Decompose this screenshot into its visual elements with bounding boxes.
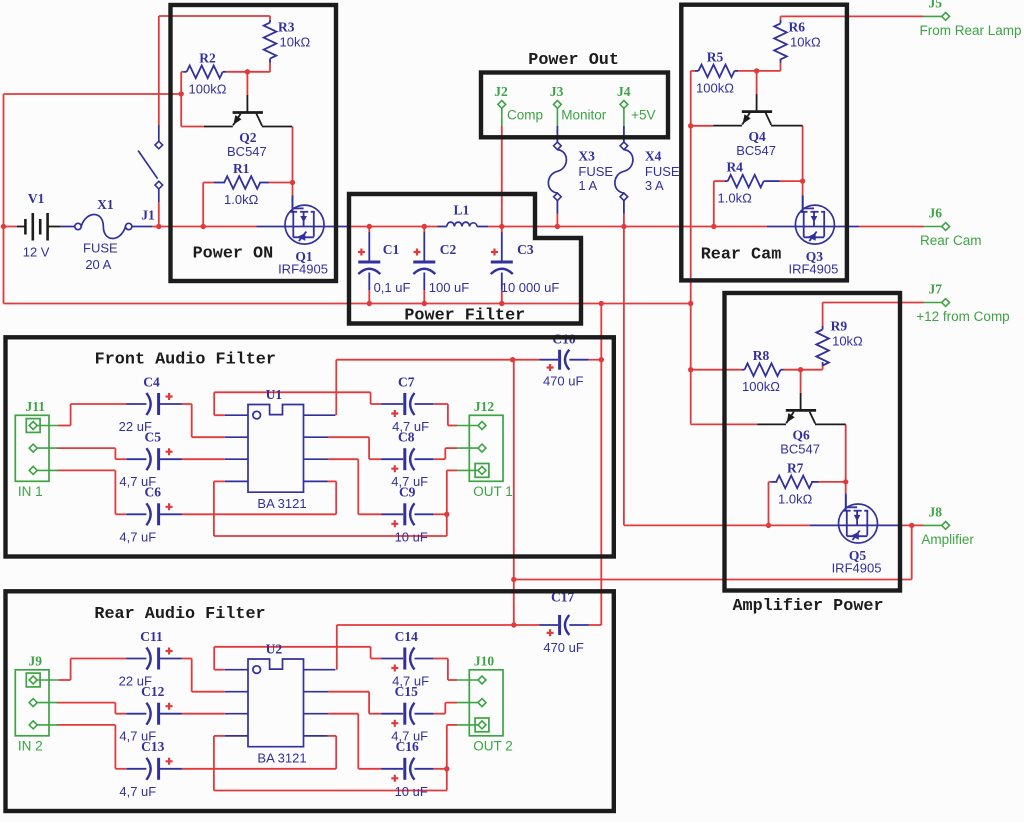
wire: R2 left vertical xyxy=(180,72,182,127)
svg-text:BC547: BC547 xyxy=(227,144,267,159)
svg-text:1 A: 1 A xyxy=(578,178,597,193)
wire: U pin4 left drop xyxy=(214,735,225,737)
svg-text:C13: C13 xyxy=(141,739,164,754)
resistor R1 xyxy=(224,176,260,189)
box: Power ON xyxy=(171,5,337,281)
svg-text:X3: X3 xyxy=(578,148,595,163)
wire: main 12V rail through Power ON xyxy=(186,226,257,228)
connector J4 xyxy=(620,101,628,109)
svg-text:J3: J3 xyxy=(550,84,564,99)
svg-text:BA 3121: BA 3121 xyxy=(257,751,306,766)
box: Rear Audio Filter xyxy=(6,591,614,811)
resistor R6 xyxy=(774,23,787,59)
svg-text:Q4: Q4 xyxy=(748,129,766,144)
svg-text:OUT 2: OUT 2 xyxy=(473,738,513,753)
svg-text:X4: X4 xyxy=(645,148,662,163)
wire: bottom ground rail xyxy=(4,303,691,305)
svg-text:BA 3121: BA 3121 xyxy=(257,496,306,511)
svg-text:10 uF: 10 uF xyxy=(395,529,428,544)
svg-text:10 000 uF: 10 000 uF xyxy=(501,280,560,295)
svg-text:FUSE: FUSE xyxy=(83,241,118,256)
svg-text:J2: J2 xyxy=(494,84,508,99)
capacitor C11 xyxy=(126,658,146,660)
wire: Q4 emitter line to vertical xyxy=(691,125,714,127)
wire: R6 top to J5 xyxy=(780,16,782,20)
box: Amplifier Power xyxy=(725,293,901,591)
capacitor C12 xyxy=(126,713,146,715)
svg-text:R2: R2 xyxy=(199,50,216,65)
svg-text:FUSE: FUSE xyxy=(578,164,613,179)
svg-text:Amplifier: Amplifier xyxy=(921,532,974,547)
wire: R5 leads xyxy=(691,70,695,72)
wire: C10 row to front filter xyxy=(336,359,512,361)
MOSFET Q1 xyxy=(285,205,324,244)
capacitor C4 xyxy=(126,403,146,405)
wire: U pin4 right to C13 row xyxy=(328,735,337,737)
wire: R3 top stub xyxy=(269,20,271,23)
wire: L1 to Rear Cam Q3 xyxy=(488,226,767,228)
svg-text:J8: J8 xyxy=(929,505,943,520)
wire: C10 row xyxy=(513,359,540,361)
wire: J pin2 to C12 xyxy=(57,702,116,704)
svg-text:L1: L1 xyxy=(454,203,470,218)
svg-text:C15: C15 xyxy=(395,684,418,699)
wire: filter cap rail drop (x=601.3) xyxy=(600,304,602,626)
svg-text:100 uF: 100 uF xyxy=(429,280,470,295)
capacitor C5 xyxy=(126,458,146,460)
svg-text:4,7 uF: 4,7 uF xyxy=(119,529,156,544)
transistor Q2 xyxy=(246,72,248,95)
svg-text:C12: C12 xyxy=(141,684,164,699)
svg-text:J7: J7 xyxy=(929,282,943,297)
transistor Q4 xyxy=(756,71,758,94)
wire: Q5 switched output to J8 xyxy=(769,524,811,526)
svg-text:J9: J9 xyxy=(28,653,42,668)
wire: bottom link row xyxy=(214,535,447,537)
connector J6 xyxy=(924,226,942,228)
wire: U pin3 right to C16 xyxy=(328,713,358,715)
wire: R8 left lead from vertical xyxy=(691,369,742,371)
battery V1 xyxy=(17,226,25,228)
wire: battery positive lead xyxy=(4,226,18,228)
svg-text:BC547: BC547 xyxy=(780,442,820,457)
resistor R5 xyxy=(699,65,735,78)
svg-text:IRF4905: IRF4905 xyxy=(832,561,882,576)
wire: R7 leads xyxy=(769,481,772,483)
wire: C13 right lead xyxy=(182,768,336,770)
svg-text:IN 1: IN 1 xyxy=(18,484,43,499)
wire: R4 left vertical to rail xyxy=(713,181,715,226)
svg-text:10 uF: 10 uF xyxy=(395,784,428,799)
svg-text:J12: J12 xyxy=(474,399,495,414)
box: Rear Cam xyxy=(681,5,847,281)
wire: C4 to U pin2 left xyxy=(182,403,192,405)
connector J8 xyxy=(924,524,942,526)
svg-text:10kΩ: 10kΩ xyxy=(832,334,863,349)
MOSFET Q3 xyxy=(795,205,834,244)
wire: J8 feedback loop down and left xyxy=(911,525,913,579)
resistor R9 xyxy=(816,330,829,366)
svg-text:X1: X1 xyxy=(97,197,114,212)
svg-text:10kΩ: 10kΩ xyxy=(790,35,821,50)
wire: U pin4 right to C6 row xyxy=(328,480,337,482)
svg-text:12 V: 12 V xyxy=(23,245,50,260)
wire: C6 right lead xyxy=(182,513,336,515)
wire: Q4 collector down to R4/Q3 gate xyxy=(802,126,804,196)
svg-text:3 A: 3 A xyxy=(645,178,664,193)
wire: X3 to rail xyxy=(556,201,558,214)
resistor R8 xyxy=(745,363,781,376)
capacitor C13 xyxy=(126,768,146,770)
svg-text:J11: J11 xyxy=(25,399,45,414)
svg-text:100kΩ: 100kΩ xyxy=(742,379,780,394)
wire: U pin1 left Z-route to C7 xyxy=(214,414,225,416)
wire: R5/R6 junction link xyxy=(757,70,781,72)
wire: J3 to fuse X3 xyxy=(556,108,558,126)
wire: C15 to J pin2 xyxy=(434,713,445,715)
svg-text:C16: C16 xyxy=(396,739,419,754)
svg-text:R5: R5 xyxy=(707,49,724,64)
svg-text:R3: R3 xyxy=(278,20,295,35)
capacitor C2 xyxy=(423,227,425,233)
svg-text:100kΩ: 100kΩ xyxy=(189,81,227,96)
wire: U pin1 left Z-route to C14 xyxy=(214,669,225,671)
wire: C17 row xyxy=(337,624,514,626)
wire: battery left rail vertical xyxy=(3,94,5,304)
svg-text:10kΩ: 10kΩ xyxy=(280,35,311,50)
wire: C12 to U pin3 left xyxy=(182,713,225,715)
wire: C11 to U pin2 left xyxy=(182,658,192,660)
wire: R2 leads blue stubs xyxy=(183,71,187,73)
svg-text:J10: J10 xyxy=(474,653,495,668)
svg-text:470 uF: 470 uF xyxy=(543,374,584,389)
wire: J9 pin1 to C11 xyxy=(58,679,71,681)
switch S1 xyxy=(158,125,160,141)
inductor L1 xyxy=(438,226,447,228)
capacitor C1 xyxy=(368,227,370,233)
svg-text:1.0kΩ: 1.0kΩ xyxy=(224,192,259,207)
junction dots xyxy=(1,224,6,229)
wire: J pin3 to C6 xyxy=(57,469,116,471)
wire: U pin2 right to C15 xyxy=(328,691,369,693)
wire: switch lower stub to J1 xyxy=(158,202,160,227)
wire: R5 left vertical (to ground rail and amp) xyxy=(690,71,692,423)
wire: emitter line Q6 to left vertical xyxy=(690,423,692,424)
wire: J4 to fuse X4 xyxy=(623,108,625,126)
wire: C8 to J pin2 xyxy=(434,458,445,460)
svg-text:J4: J4 xyxy=(617,84,631,99)
wire: C5 to U pin3 left xyxy=(182,458,225,460)
svg-text:1.0kΩ: 1.0kΩ xyxy=(718,191,753,206)
svg-text:Monitor: Monitor xyxy=(561,108,607,123)
resistor R3 xyxy=(264,23,277,59)
svg-text:Comp: Comp xyxy=(507,108,543,123)
wire: Q3 to J6 xyxy=(859,226,924,228)
wire: J2 to +12 rail (Comp) xyxy=(501,108,503,126)
wire: fuse X1 to J1 node xyxy=(152,226,186,228)
wire: Q2 collector down to R1/Q1 gate xyxy=(292,127,294,196)
svg-text:4,7 uF: 4,7 uF xyxy=(119,784,156,799)
svg-text:R6: R6 xyxy=(789,20,806,35)
connector J5 xyxy=(924,15,942,17)
wire: R3 bottom to base junction xyxy=(269,63,271,72)
wire: U pin4 left drop xyxy=(214,480,225,482)
svg-text:R4: R4 xyxy=(726,160,743,175)
svg-text:J1: J1 xyxy=(141,208,155,223)
resistor R2 xyxy=(187,66,223,79)
wire: R9 top to J7 xyxy=(822,303,824,327)
svg-text:Amplifier Power: Amplifier Power xyxy=(732,597,883,616)
capacitor C10 xyxy=(540,359,559,361)
wire: J pin3 to C13 xyxy=(57,724,116,726)
svg-text:R9: R9 xyxy=(831,319,848,334)
svg-text:Rear Cam: Rear Cam xyxy=(920,233,982,248)
capacitor C6 xyxy=(126,513,146,515)
wire: U pin3 right to C9 xyxy=(328,458,358,460)
capacitor C14 xyxy=(381,658,403,660)
wire: bottom link row xyxy=(214,790,447,792)
capacitor C15 xyxy=(381,713,403,715)
wire: Q2 emitter to R2-left xyxy=(181,126,204,128)
svg-text:FUSE: FUSE xyxy=(645,164,680,179)
svg-text:C8: C8 xyxy=(398,430,415,445)
svg-text:C3: C3 xyxy=(517,242,534,257)
svg-text:IRF4905: IRF4905 xyxy=(278,262,328,277)
svg-text:BC547: BC547 xyxy=(736,143,776,158)
wire: X4 rail to amplifier switch source (x=624 vertical) xyxy=(623,227,625,526)
svg-text:R7: R7 xyxy=(787,460,804,475)
svg-text:C11: C11 xyxy=(140,629,163,644)
svg-text:J6: J6 xyxy=(929,206,943,221)
svg-text:V1: V1 xyxy=(28,191,45,206)
svg-text:U2: U2 xyxy=(266,642,283,657)
connector J11 xyxy=(15,415,49,481)
wire: fuse X1 blue lead to J1 xyxy=(132,226,152,228)
svg-text:C14: C14 xyxy=(395,629,418,644)
capacitor C17 xyxy=(540,624,559,626)
box: Power Out xyxy=(481,73,668,138)
svg-text:C6: C6 xyxy=(145,485,162,500)
connector J12 xyxy=(469,415,503,481)
wire: R7 left vertical to switched wire xyxy=(768,482,770,526)
svg-text:C2: C2 xyxy=(440,242,457,257)
wire: C7 to J pin1 xyxy=(434,403,448,405)
wire: front filter out vertical (x=513.8) xyxy=(513,359,514,361)
svg-text:R8: R8 xyxy=(753,348,770,363)
wire: J pin2 to C5 xyxy=(57,447,116,449)
svg-text:IN 2: IN 2 xyxy=(18,738,43,753)
wire: R9 bottom to junction xyxy=(822,366,824,370)
svg-text:1.0kΩ: 1.0kΩ xyxy=(778,491,813,506)
wire: X4 to rail xyxy=(623,201,625,214)
wire: blue segment through Q3 xyxy=(767,226,859,228)
svg-text:Power Out: Power Out xyxy=(528,51,619,70)
fuse X3 xyxy=(554,142,562,150)
capacitor C9 xyxy=(381,513,403,515)
box: Power Filter xyxy=(349,194,581,324)
connector J7 xyxy=(924,302,942,304)
connector J2 xyxy=(498,101,506,109)
svg-text:C1: C1 xyxy=(383,242,400,257)
connector J9 xyxy=(15,670,49,736)
svg-text:100kΩ: 100kΩ xyxy=(696,80,734,95)
wire: R1 leads xyxy=(203,182,214,184)
connector J10 xyxy=(469,670,503,736)
svg-text:Power Filter: Power Filter xyxy=(404,307,525,326)
svg-text:OUT 1: OUT 1 xyxy=(473,484,513,499)
svg-text:+5V: +5V xyxy=(631,108,655,123)
MOSFET Q5 xyxy=(839,504,878,543)
svg-text:C4: C4 xyxy=(143,374,160,389)
svg-text:From Rear Lamp: From Rear Lamp xyxy=(919,23,1021,38)
svg-text:IRF4905: IRF4905 xyxy=(788,262,838,277)
wire: R1 left vertical to rail xyxy=(202,183,204,227)
svg-text:Power ON: Power ON xyxy=(193,245,274,264)
resistor R7 xyxy=(776,476,812,489)
wire: Q6 collector down to R7/Q5 gate xyxy=(845,424,847,493)
wire: C14 to J pin1 xyxy=(434,658,448,660)
svg-text:U1: U1 xyxy=(266,387,283,402)
capacitor C3 xyxy=(501,227,503,233)
wire: R2 right lead to base junction xyxy=(226,71,247,73)
svg-text:Q2: Q2 xyxy=(239,130,257,145)
svg-text:Rear Cam: Rear Cam xyxy=(701,246,782,265)
capacitor C8 xyxy=(381,458,403,460)
wire: top feed to R2 block xyxy=(4,93,182,95)
svg-text:+12 from Comp: +12 from Comp xyxy=(916,309,1009,324)
wire: C9 junction to J pin3 xyxy=(434,513,447,515)
svg-text:470 uF: 470 uF xyxy=(543,640,584,655)
wire: U pin2 right to C8 xyxy=(328,436,369,438)
capacitor C7 xyxy=(381,403,403,405)
wire: C16 junction to J pin3 xyxy=(434,768,447,770)
svg-text:Front Audio Filter: Front Audio Filter xyxy=(95,351,276,370)
svg-text:0,1 uF: 0,1 uF xyxy=(374,280,411,295)
capacitor C16 xyxy=(381,768,403,770)
resistor R4 xyxy=(728,175,764,188)
box: Front Audio Filter xyxy=(6,337,614,556)
wire: blue segment through Q1 xyxy=(257,226,349,228)
svg-text:J5: J5 xyxy=(929,0,943,11)
fuse X4 xyxy=(620,142,628,150)
svg-text:C9: C9 xyxy=(399,485,416,500)
svg-text:Q6: Q6 xyxy=(792,428,810,443)
connector J3 xyxy=(554,101,562,109)
fuse X1 xyxy=(75,223,81,229)
wire: R4 leads xyxy=(714,180,725,182)
svg-text:C5: C5 xyxy=(145,430,162,445)
wire: Q1 drain to power filter xyxy=(349,226,438,228)
transistor Q6 xyxy=(800,370,802,393)
svg-text:20 A: 20 A xyxy=(85,257,111,272)
svg-text:R1: R1 xyxy=(233,161,250,176)
svg-text:Rear Audio Filter: Rear Audio Filter xyxy=(94,605,265,624)
IC U2 xyxy=(248,659,304,747)
svg-text:C7: C7 xyxy=(398,374,415,389)
wire: switch top feed xyxy=(158,16,160,125)
wire: J11 pin1 to C4 xyxy=(58,425,71,427)
IC U1 xyxy=(248,405,304,493)
